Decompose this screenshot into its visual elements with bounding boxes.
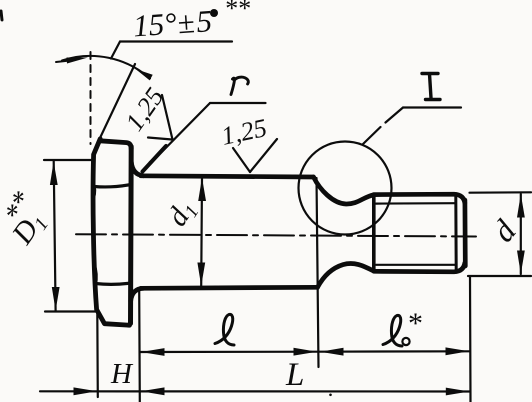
svg-text:d1: d1 <box>161 194 203 233</box>
chamfer 1,25 head leader stem <box>162 95 173 140</box>
angle arc left arrow tail <box>56 61 70 63</box>
thread major top line <box>374 194 465 203</box>
hex head facet line lower <box>95 283 130 284</box>
dimension D1 top extension line <box>44 159 93 161</box>
dimension d1 arrow down <box>197 263 205 287</box>
thread end right edge <box>463 200 468 266</box>
dimension H/L bottom line <box>40 390 470 392</box>
detail I leader line <box>363 108 403 145</box>
thread shoulder vertical <box>372 195 376 272</box>
shank bottom line <box>141 287 318 288</box>
angle arc left arrowhead <box>67 58 89 64</box>
hex head facet lens upper <box>92 181 95 200</box>
leader 15deg bend <box>111 42 120 59</box>
label degree dot after 5 <box>210 9 218 17</box>
label r <box>231 77 248 94</box>
dimension d arrow up <box>517 194 525 218</box>
thread minor top line <box>376 202 455 205</box>
dimension d bottom extension <box>468 275 531 277</box>
dimension D1 arrow down <box>52 287 60 311</box>
shank top line <box>141 176 314 177</box>
label l (script ell) <box>215 314 234 345</box>
dimension d1 arrow up <box>198 178 206 202</box>
dimension H outside arrow pointing right <box>74 387 98 395</box>
hex head right face full height <box>128 147 134 324</box>
hex head left profile <box>93 139 129 325</box>
dimension l arrow right <box>294 348 318 356</box>
extension line l / l0 boundary tick <box>317 178 319 367</box>
dimension d1 line <box>200 178 203 287</box>
label l0* (script ell + sub o + asterisk) <box>383 315 402 346</box>
dimension D1 bottom extension line <box>45 310 96 312</box>
neck top curve <box>314 177 374 204</box>
dimension L arrow right <box>446 388 470 396</box>
dimension l arrow left <box>141 348 165 356</box>
svg-text:**: ** <box>224 0 250 23</box>
svg-text:L: L <box>285 357 304 393</box>
leader 15deg shelf <box>120 40 232 42</box>
svg-text:H: H <box>110 358 134 390</box>
svg-text:15°±5: 15°±5 <box>132 3 213 43</box>
thread chamfer inner vertical <box>454 197 457 271</box>
dimension d line <box>520 194 522 274</box>
construction dashed vertical line <box>90 52 92 144</box>
svg-text:1,25: 1,25 <box>219 113 270 151</box>
extension line left of H (head face) <box>96 313 99 397</box>
chamfer 1,25 head leader bar <box>148 138 172 140</box>
chamfer 1,25 shank leader right branch <box>250 139 277 172</box>
detail circle I <box>299 142 392 235</box>
radius r leader slant <box>144 103 210 170</box>
svg-text:1,25: 1,25 <box>120 82 170 136</box>
dimension l0 arrow right <box>446 347 470 355</box>
dimension d arrow down <box>517 251 525 275</box>
dimension L arrow left <box>141 387 165 395</box>
detail I shelf <box>403 106 461 108</box>
dimension l0 arrow left <box>320 348 344 356</box>
angle dimension arc <box>62 56 150 79</box>
extension line right end (l0 / L right) <box>469 277 472 402</box>
chamfer 15 deg construction line <box>100 64 136 139</box>
extension line shank start (H right / l left / L left) <box>138 290 141 402</box>
detail I label glyph <box>422 74 440 100</box>
svg-text:d: d <box>485 212 524 248</box>
centerline (axis, dash-dot) <box>76 234 476 236</box>
hex head top edge <box>100 141 131 149</box>
thread major bottom line <box>374 263 465 272</box>
radius r shelf <box>210 102 266 104</box>
dimension D1 arrow up <box>50 162 58 186</box>
scan speck on L line <box>329 394 332 397</box>
chamfer 1,25 head arrowhead <box>143 150 164 172</box>
dimension d top extension <box>470 191 532 194</box>
dimension l line <box>141 351 318 353</box>
chamfer 1,25 shank leader left branch <box>233 148 250 172</box>
thread minor bottom line <box>376 264 455 266</box>
hex head facet line upper <box>94 185 131 187</box>
edge mark top-left <box>1 11 2 20</box>
dimension l0 line <box>319 350 470 353</box>
dimension D1 line <box>54 161 56 311</box>
fillet head to shank bottom <box>131 288 144 301</box>
neck bottom curve <box>318 263 375 287</box>
fillet head to shank top <box>131 162 143 176</box>
svg-text:*: * <box>408 307 423 340</box>
hex head facet lens lower <box>93 263 96 286</box>
angle arc right arrowhead <box>136 69 153 80</box>
